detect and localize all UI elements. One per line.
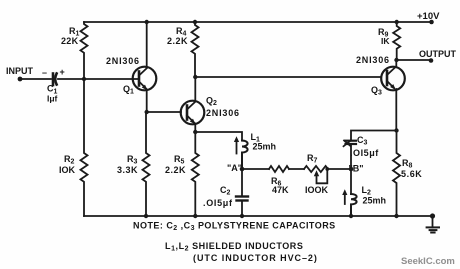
node Q3 collector / output junction <box>394 58 398 62</box>
label +10V <box>417 11 440 22</box>
wire R6 to R7 <box>289 168 304 170</box>
Q3 emitter arrow <box>390 84 396 90</box>
transistor Q1 <box>133 22 157 112</box>
wire node B up to C3 <box>350 146 352 169</box>
watermark SeekIC.com <box>401 256 455 267</box>
svg-text:L1,L2 SHIELDED INDUCTORS: L1,L2 SHIELDED INDUCTORS <box>165 241 303 253</box>
label C1 <box>47 84 58 96</box>
svg-text:R2: R2 <box>64 154 75 166</box>
label 2N1306 (Q3) <box>356 55 390 65</box>
inductor L2 <box>351 194 357 216</box>
transistor Q3 <box>381 60 405 131</box>
node C3/R8 junction <box>394 128 398 132</box>
label C3 <box>357 135 368 147</box>
label 2.2K (R4) <box>167 36 188 46</box>
label R5 <box>174 154 185 166</box>
svg-text:.OI5μf: .OI5μf <box>350 148 379 158</box>
label Q3 <box>371 85 382 97</box>
wire C1 to node / Q1 base <box>58 78 139 80</box>
label INPUT <box>6 66 34 76</box>
svg-text:2NI306: 2NI306 <box>356 55 390 65</box>
svg-text:NOTE: C2 ,C3 POLYSTYRENE CAPAC: NOTE: C2 ,C3 POLYSTYRENE CAPACITORS <box>133 221 336 233</box>
node R5 bottom <box>193 214 197 218</box>
wire R7 to node B <box>328 168 351 170</box>
label .015uf (C3) <box>350 148 379 158</box>
Q2 emitter arrow <box>190 119 196 125</box>
wire C2 to bottom rail <box>241 202 243 216</box>
label R8 <box>402 158 413 170</box>
L2 tuning arrow <box>344 193 346 204</box>
svg-text:–: – <box>42 68 47 78</box>
label 100K <box>305 185 329 195</box>
label 25mh (L2) <box>363 196 387 206</box>
label .015uf (C2) <box>203 198 233 208</box>
Q1 emitter arrow <box>142 85 148 91</box>
resistor R1 <box>81 22 88 79</box>
svg-text:IOK: IOK <box>59 165 76 175</box>
label C2 <box>220 185 231 197</box>
node L2 bottom <box>349 214 353 218</box>
svg-text:C3: C3 <box>357 135 368 147</box>
svg-text:R3: R3 <box>127 154 138 166</box>
resistor R5 <box>192 132 199 216</box>
resistor R8 <box>393 131 400 217</box>
node R8 bottom <box>394 214 398 218</box>
svg-text:C2: C2 <box>220 185 231 197</box>
label R3 <box>127 154 138 166</box>
svg-text:2NI306: 2NI306 <box>206 108 240 118</box>
note line 3 <box>193 253 318 263</box>
label OUTPUT <box>419 49 457 59</box>
node ground junction <box>430 213 435 218</box>
note line 2 <box>165 241 303 253</box>
svg-text:2.2K: 2.2K <box>167 36 188 46</box>
svg-text:+: + <box>60 67 65 77</box>
node C2 bottom <box>240 214 244 218</box>
note line 1 <box>133 221 336 233</box>
node R9 top at rail <box>395 20 399 24</box>
svg-text:Q2: Q2 <box>206 96 217 108</box>
input terminal <box>18 77 23 82</box>
node junction input/R1/R2 <box>82 77 86 81</box>
label Q2 <box>206 96 217 108</box>
node R3 bottom <box>144 214 148 218</box>
svg-text:"A": "A" <box>227 163 242 173</box>
label 2N1306 (Q2) <box>206 108 240 118</box>
wire R4 node to Q3 base <box>195 76 381 78</box>
node B <box>349 167 354 172</box>
output terminal <box>429 58 434 63</box>
svg-text:Q3: Q3 <box>371 85 382 97</box>
svg-text:22K: 22K <box>61 36 79 46</box>
label R6 <box>271 176 282 188</box>
svg-text:(UTC INDUCTOR HVC–2): (UTC INDUCTOR HVC–2) <box>193 253 318 263</box>
svg-text:+10V: +10V <box>417 11 440 22</box>
svg-text:INPUT: INPUT <box>6 66 34 76</box>
node R4 bottom / Q2 collector <box>193 75 197 79</box>
label 1K <box>381 36 390 46</box>
label "A" <box>227 163 242 173</box>
svg-text:IOOK: IOOK <box>305 185 329 195</box>
ground <box>427 216 439 233</box>
node R4 top at rail <box>193 20 197 24</box>
svg-text:Iμf: Iμf <box>47 94 58 104</box>
label R2 <box>64 154 75 166</box>
node Q1 collector at rail <box>145 20 149 24</box>
resistor R2 <box>81 79 88 216</box>
wire node B down to L2 <box>350 169 352 194</box>
wire C3 up and right to Q3 emitter line <box>351 131 397 140</box>
label 47K <box>272 185 289 195</box>
svg-text:5.6K: 5.6K <box>401 169 422 179</box>
wire input to C1 <box>20 78 51 80</box>
svg-text:3.3K: 3.3K <box>117 165 138 175</box>
inductor L1 <box>242 141 248 170</box>
wire bottom rail <box>84 215 433 217</box>
svg-text:R7: R7 <box>307 153 318 165</box>
svg-text:.OI5μf: .OI5μf <box>203 198 233 208</box>
svg-text:R5: R5 <box>174 154 185 166</box>
capacitor C3 <box>344 140 357 146</box>
power terminal +10V <box>429 20 434 25</box>
label L2 <box>362 185 372 197</box>
svg-text:25mh: 25mh <box>363 196 387 206</box>
wire node A down to C2 <box>241 169 243 195</box>
node Q2 emitter junction <box>193 130 197 134</box>
node Q1 emitter junction <box>145 110 149 114</box>
svg-text:Q1: Q1 <box>123 84 134 96</box>
wire node A to R6 <box>242 168 269 170</box>
label 5.6K <box>401 169 422 179</box>
label 10K <box>59 165 76 175</box>
svg-text:IK: IK <box>381 36 390 46</box>
label 25mh (L1) <box>253 142 277 152</box>
transistor Q2 <box>181 77 205 132</box>
potentiometer R7 <box>304 166 328 172</box>
resistor R6 <box>269 166 289 172</box>
capacitor C1 <box>53 74 57 86</box>
svg-text:R8: R8 <box>402 158 413 170</box>
wire Q1 emitter to Q2 base <box>147 111 181 113</box>
resistor R9 <box>393 22 400 60</box>
wire top supply rail <box>84 21 432 23</box>
label 22K <box>61 36 79 46</box>
resistor R4 <box>192 22 199 77</box>
L1 tuning arrow <box>236 140 238 154</box>
wire output <box>397 59 432 61</box>
svg-text:25mh: 25mh <box>253 142 277 152</box>
label 2N1306 (Q1) <box>106 56 140 66</box>
capacitor C2 <box>236 197 248 201</box>
wire Q2 emitter to L1 <box>195 132 242 139</box>
label R4 <box>176 26 187 38</box>
svg-text:2.2K: 2.2K <box>165 165 186 175</box>
R7 wiper <box>317 170 328 184</box>
label R7 <box>307 153 318 165</box>
svg-text:47K: 47K <box>272 185 289 195</box>
label R1 <box>69 26 80 38</box>
resistor R3 <box>143 112 150 216</box>
label 1uf <box>47 94 58 104</box>
label L1 <box>251 132 261 144</box>
label Q1 <box>123 84 134 96</box>
node A <box>240 167 245 172</box>
label 3.3K <box>117 165 138 175</box>
svg-text:OUTPUT: OUTPUT <box>419 49 457 59</box>
label "B" <box>349 164 364 174</box>
label 2.2K (R5) <box>165 165 186 175</box>
label C1 polarity <box>42 67 65 78</box>
svg-text:2NI306: 2NI306 <box>106 56 140 66</box>
svg-text:SeekIC.com: SeekIC.com <box>401 256 455 267</box>
label R9 <box>378 27 389 39</box>
